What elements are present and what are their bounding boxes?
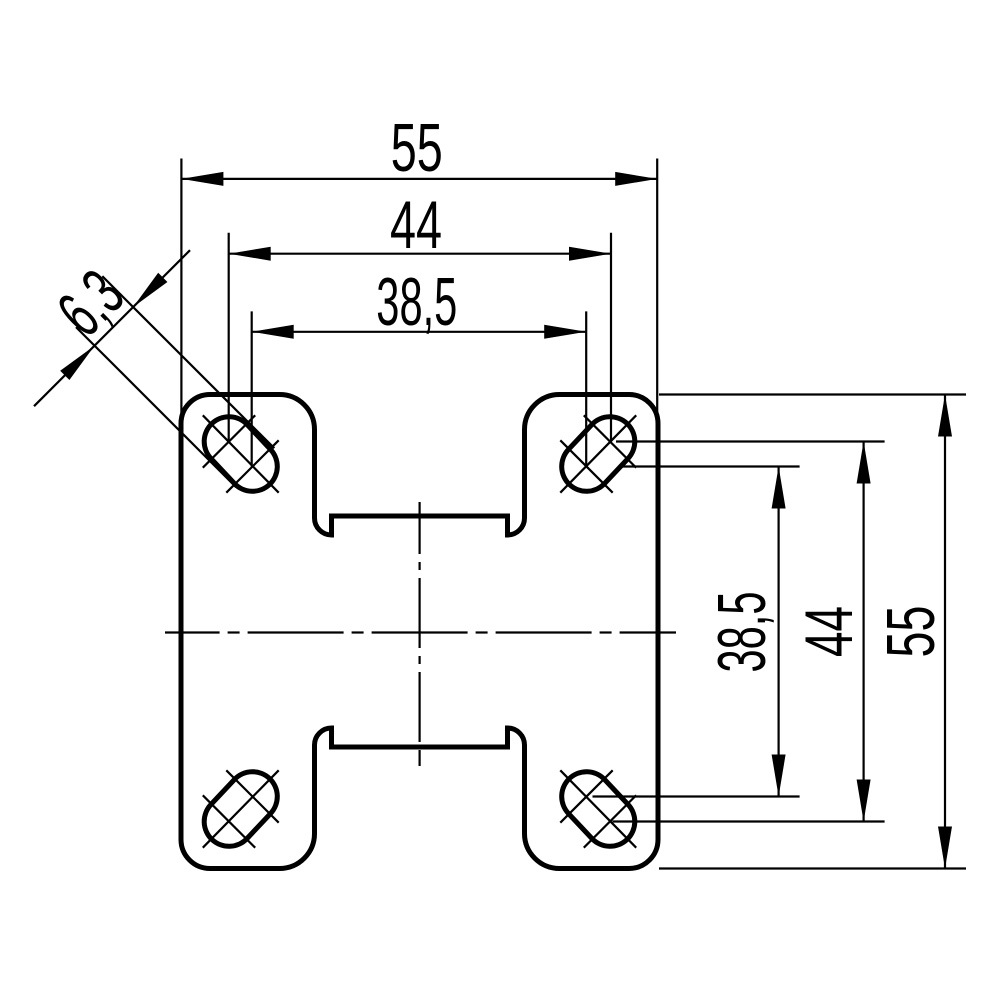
extension lines dim 38,5 top xyxy=(252,311,587,466)
extension lines dim 38,5 right xyxy=(593,467,800,797)
arrow 44 right bottom xyxy=(857,780,871,822)
extension lines dim 44 top xyxy=(229,233,611,442)
slot hole bottom-right xyxy=(587,797,611,822)
arrow 38,5 top right xyxy=(544,325,586,339)
slot hole bottom-left xyxy=(229,797,253,822)
svg-text:44: 44 xyxy=(390,187,442,263)
centre marks slot bottom-right xyxy=(560,770,636,847)
centre marks slot top-left xyxy=(203,415,279,492)
dimension line 55 right xyxy=(944,395,946,869)
arrow 55 top left xyxy=(181,172,223,186)
arrow 38,5 right top xyxy=(772,467,786,509)
svg-text:55: 55 xyxy=(391,110,443,186)
dimension line 6,3 xyxy=(34,250,190,406)
horizontal centreline xyxy=(165,631,676,633)
arrow 44 right top xyxy=(857,442,871,484)
arrow 38,5 top left xyxy=(252,325,294,339)
extension lines dim 55 top xyxy=(181,159,657,426)
arrow 55 top right xyxy=(615,172,657,186)
slot hole top-left xyxy=(229,442,253,467)
plate outline xyxy=(181,395,658,869)
tangent extension lines dim 6,3 xyxy=(76,276,274,487)
arrow 44 top left xyxy=(229,247,271,261)
arrow 38,5 right bottom xyxy=(772,755,786,797)
svg-text:55: 55 xyxy=(873,606,949,658)
vertical centreline xyxy=(419,502,421,766)
arrow 44 top right xyxy=(569,247,611,261)
dimension line 55 top xyxy=(181,178,657,180)
svg-text:38,5: 38,5 xyxy=(376,264,457,340)
slot hole top-right xyxy=(587,442,611,467)
arrow 6,3 lower xyxy=(60,346,94,380)
extension lines dim 55 right xyxy=(659,395,966,869)
svg-text:38,5: 38,5 xyxy=(704,592,780,673)
centre marks slot bottom-left xyxy=(203,770,279,847)
svg-text:44: 44 xyxy=(791,606,867,657)
centre marks slot top-right xyxy=(560,415,636,492)
dimension line 38,5 right xyxy=(777,467,779,797)
arrow 6,3 upper xyxy=(133,273,167,307)
arrow 55 right top xyxy=(938,395,952,437)
dimension line 38,5 top xyxy=(252,331,587,333)
dimension line 44 right xyxy=(862,442,864,822)
dimension line 44 top xyxy=(229,253,611,255)
arrow 55 right bottom xyxy=(938,827,952,869)
extension lines dim 44 right xyxy=(613,442,885,822)
